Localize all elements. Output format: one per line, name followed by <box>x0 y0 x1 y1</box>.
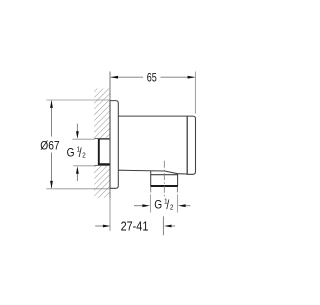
inlet thread spigot G1/2 top edge <box>99 138 110 140</box>
dimension 27-41 line left with tail <box>95 225 103 227</box>
body end cap outline <box>187 116 195 174</box>
svg-text:27-41: 27-41 <box>121 219 149 234</box>
outlet spigot right edge <box>177 174 179 186</box>
body end cap separator line <box>186 116 188 174</box>
inlet thread dimension extension line bottom <box>73 165 95 167</box>
wall surface line <box>109 72 111 199</box>
dimension 27-41 arrowhead left (pointing right) <box>103 225 111 228</box>
body top silhouette edge <box>118 115 187 117</box>
outlet centerline (dash-dot) <box>163 161 165 197</box>
svg-text:2: 2 <box>82 152 86 160</box>
inlet thread label G 1/2 <box>67 146 86 160</box>
outlet thread stub right <box>176 187 178 192</box>
wall hatching lower section <box>94 166 110 198</box>
inlet thread dimension arrowhead down <box>76 131 79 139</box>
outlet thread dimension line right with tail <box>185 205 190 207</box>
dimension diameter 67 extension line top <box>46 99 110 101</box>
inlet thread spigot G1/2 end face <box>98 139 100 165</box>
dimension diameter 67 line upper segment <box>51 101 53 137</box>
svg-text:2: 2 <box>170 204 174 212</box>
svg-text:G: G <box>67 147 75 160</box>
dimension 65 arrowhead right <box>188 76 196 79</box>
dimension diameter 67 line lower segment <box>51 153 53 189</box>
wall hatching upper section <box>94 89 110 139</box>
wall opening boundary bottom <box>94 164 110 166</box>
inlet thread dimension extension line top <box>72 138 95 140</box>
outlet thread dimension arrowhead right (pointing left) <box>178 204 186 207</box>
outlet spigot shoulder edge <box>151 174 178 176</box>
svg-text:Ø67: Ø67 <box>40 140 59 153</box>
inlet thread dimension line lower <box>76 173 78 181</box>
dimension 27-41 line right with tail <box>171 225 175 227</box>
svg-text:G: G <box>154 199 162 212</box>
dimension diameter 67 arrowhead bottom <box>50 181 53 189</box>
outlet spigot thick end face <box>150 185 178 187</box>
dimension 65 extension line right <box>194 72 196 114</box>
inlet thread spigot G1/2 bottom edge <box>98 163 110 165</box>
outlet thread stub left <box>150 187 152 192</box>
dimension 65 line right segment <box>161 76 195 78</box>
outlet thread label G 1/2 <box>154 198 173 212</box>
dimension 27-41 arrowhead right (pointing left) <box>164 225 172 228</box>
dimension 65 line left segment <box>111 76 143 78</box>
body bottom silhouette edge <box>118 170 187 174</box>
outlet spigot left edge <box>150 171 152 186</box>
wall flange plate (diameter 67) <box>110 101 118 189</box>
outlet thread dimension extension line left <box>149 195 151 213</box>
outlet thread dimension line left with tail <box>134 205 143 207</box>
inlet thread dimension arrowhead up <box>76 166 79 174</box>
wall opening boundary top <box>94 138 110 140</box>
outlet thread dimension extension line right <box>177 195 179 213</box>
wall surface extension line (to 27-41 dimension) <box>109 198 111 231</box>
dimension diameter 67 arrowhead top <box>50 100 53 108</box>
dimension diameter 67 extension line bottom <box>46 188 110 190</box>
outlet centerline extension (to 27-41 dimension) <box>162 216 164 235</box>
inlet thread dimension line upper <box>76 124 78 133</box>
outlet thread dimension arrowhead left (pointing right) <box>142 204 150 207</box>
svg-text:65: 65 <box>147 71 157 85</box>
dimension 65 arrowhead left <box>110 76 118 79</box>
